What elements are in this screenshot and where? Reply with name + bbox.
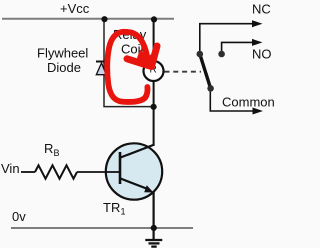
svg-text:Flywheel: Flywheel: [37, 46, 88, 61]
wire R circle to collector junction: [153, 80, 155, 146]
relay switch lever: [200, 54, 211, 88]
red annotation arrow tail: [127, 32, 147, 55]
svg-text:R: R: [44, 141, 53, 156]
wire base inside: [106, 171, 120, 173]
svg-text:Common: Common: [222, 95, 275, 110]
resistor RB: [35, 165, 77, 178]
dashed link relay coil to contacts: [165, 71, 202, 73]
wire 0v rail: [11, 227, 193, 229]
arrowhead NC: [252, 20, 263, 27]
svg-text:0v: 0v: [12, 209, 26, 224]
transistor TR1 base bar: [119, 152, 122, 184]
contact dot NO: [218, 51, 225, 58]
contact dot Common: [207, 85, 214, 92]
ground symbol: [145, 239, 162, 241]
junction node at box top-right: [151, 16, 157, 22]
wire +Vcc rail: [2, 18, 174, 20]
relay coil circle R: [144, 61, 164, 81]
red annotation loop (current path): [107, 32, 147, 102]
wire Vin to resistor: [21, 171, 35, 173]
wire Common contact: [210, 88, 253, 111]
svg-text:Diode: Diode: [47, 60, 81, 75]
svg-text:B: B: [54, 148, 60, 158]
flywheel diode D1: [96, 61, 105, 63]
svg-text:Vin: Vin: [1, 161, 20, 176]
svg-text:1: 1: [121, 206, 126, 216]
arrowhead Common: [253, 108, 264, 115]
wire NO contact: [222, 42, 253, 54]
contact dot NC: [197, 51, 204, 58]
junction node at box bottom-right: [151, 104, 157, 110]
junction node at box top-left: [101, 16, 107, 22]
transistor TR1 emitter stroke: [121, 179, 150, 190]
svg-text:NC: NC: [252, 2, 271, 17]
red annotation arrowhead: [127, 46, 157, 67]
wire NC contact: [200, 24, 253, 54]
wire resistor to base: [77, 171, 120, 173]
svg-text:TR: TR: [103, 200, 120, 215]
arrowhead NO: [252, 39, 263, 46]
svg-text:+Vcc: +Vcc: [60, 1, 90, 16]
transistor TR1 collector stroke: [121, 145, 155, 158]
relay box outline: [104, 19, 154, 107]
svg-text:NO: NO: [252, 47, 272, 62]
arrowhead emitter: [144, 185, 153, 192]
wire emitter to ground: [153, 191, 155, 240]
junction node at 0v rail: [151, 225, 157, 231]
wire collector branch upper (box right edge): [153, 19, 155, 62]
transistor TR1 body: [106, 143, 162, 199]
